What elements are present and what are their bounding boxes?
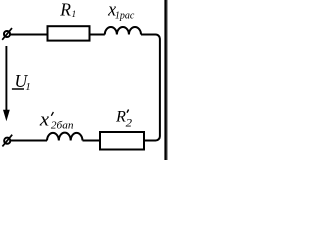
label U1 bbox=[12, 71, 31, 93]
wire between R1 and inductor bbox=[90, 34, 105, 36]
resistor R'2 bbox=[100, 132, 144, 150]
wire top-right + right side + bottom-right corner bbox=[141, 35, 160, 141]
svg-text:1: 1 bbox=[72, 10, 77, 20]
label R1 bbox=[59, 0, 76, 20]
inductor x1рас bbox=[105, 27, 141, 35]
inductor x'2 bbox=[47, 133, 83, 141]
terminal top-left bbox=[2, 28, 12, 40]
arrow U1 bbox=[3, 46, 10, 121]
terminal bottom-left bbox=[2, 135, 12, 147]
svg-text:R: R bbox=[115, 107, 126, 125]
svg-text:2бап: 2бап bbox=[51, 120, 74, 132]
wire between R'2 and bottom inductor bbox=[83, 140, 101, 142]
label x'2бап bbox=[39, 109, 74, 131]
svg-text:x: x bbox=[39, 109, 50, 130]
svg-text:R: R bbox=[59, 0, 71, 19]
svg-text:1: 1 bbox=[25, 81, 30, 93]
wire bottom-left: inductor to terminal bbox=[10, 140, 47, 142]
wire top-left: terminal to R1 bbox=[10, 34, 48, 36]
resistor R1 bbox=[48, 26, 90, 40]
label x1рас bbox=[107, 0, 135, 22]
svg-text:1pac: 1pac bbox=[115, 11, 135, 22]
label R'2 bbox=[115, 107, 132, 129]
svg-text:2: 2 bbox=[126, 117, 133, 129]
